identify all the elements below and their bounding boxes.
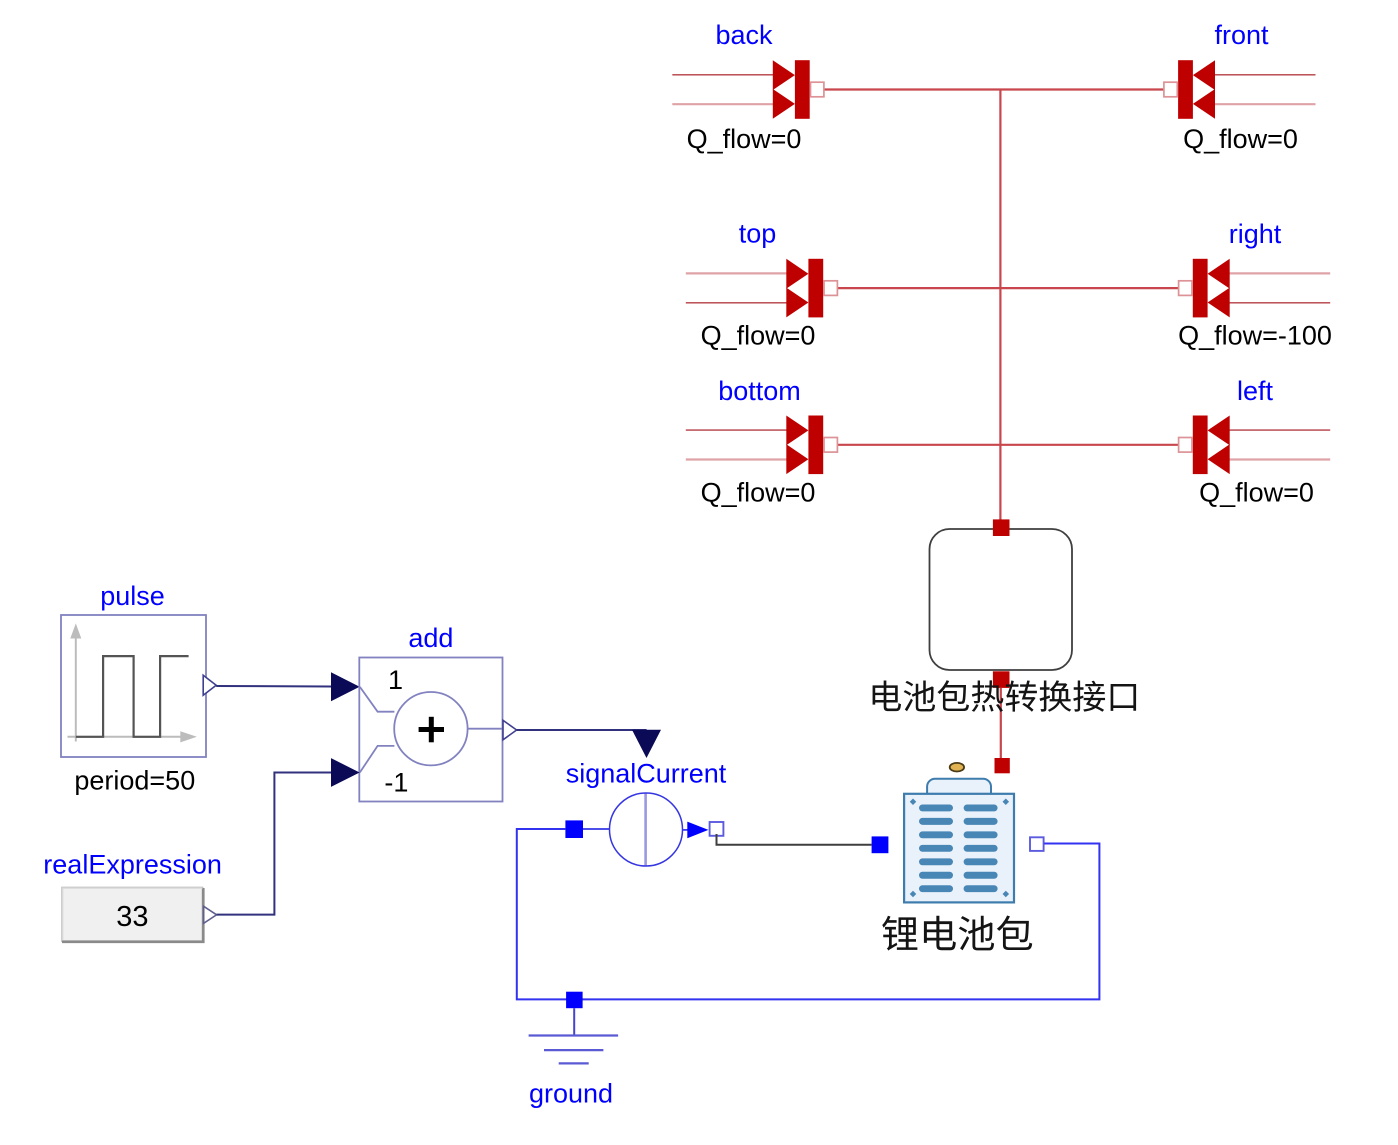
pulse source block bbox=[61, 615, 206, 757]
port pulse output bbox=[203, 675, 216, 695]
battery pack icon 锂电池包 bbox=[904, 779, 1014, 903]
svg-text:front: front bbox=[1214, 20, 1269, 50]
port signalCurrent control input arrow (down) bbox=[632, 730, 661, 758]
port add.u1 input arrow bbox=[331, 672, 360, 701]
wire add.y to signalCurrent control bbox=[517, 729, 647, 731]
svg-text:right: right bbox=[1229, 219, 1282, 249]
pin signalCurrent.p (left square) bbox=[565, 820, 583, 838]
ground symbol bbox=[529, 1008, 619, 1063]
wire vertical trunk to interface bbox=[999, 90, 1001, 521]
svg-text:pulse: pulse bbox=[100, 581, 165, 611]
svg-text:signalCurrent: signalCurrent bbox=[566, 759, 727, 789]
pin ground junction square bbox=[566, 992, 583, 1009]
svg-text:Q_flow=0: Q_flow=0 bbox=[701, 478, 816, 508]
svg-text:33: 33 bbox=[116, 901, 148, 933]
wire bottom-left row bbox=[837, 444, 1179, 446]
heat flow sensor left bbox=[1179, 416, 1331, 475]
heat flow sensor front bbox=[1164, 60, 1316, 119]
svg-text:Q_flow=0: Q_flow=0 bbox=[701, 321, 816, 351]
wire electrical loop (signalCurrent.p - ground - battery.n) bbox=[517, 829, 1100, 999]
svg-text:Q_flow=-100: Q_flow=-100 bbox=[1178, 321, 1332, 351]
svg-text:1: 1 bbox=[388, 665, 403, 695]
source signalCurrent bbox=[583, 793, 708, 866]
svg-text:left: left bbox=[1237, 376, 1274, 406]
wire interface to battery heat port bbox=[1000, 688, 1002, 758]
node battery heat port bbox=[995, 758, 1010, 773]
node heat port top of interface bbox=[993, 519, 1010, 536]
svg-text:period=50: period=50 bbox=[74, 766, 195, 796]
label 锂电池包 bbox=[882, 916, 1032, 951]
wire realExpression.y to add.u2 bbox=[217, 773, 332, 915]
svg-text:ground: ground bbox=[529, 1079, 613, 1109]
pin battery positive (left square) bbox=[872, 836, 889, 853]
heat flow sensor bottom bbox=[686, 416, 838, 475]
pin signalCurrent.n (right square) bbox=[710, 822, 724, 836]
label 电池包热转换接口 bbox=[873, 680, 1137, 712]
svg-text:bottom: bottom bbox=[718, 376, 801, 406]
heat flow sensor right bbox=[1179, 259, 1331, 318]
node heat port bottom of interface bbox=[993, 671, 1010, 688]
port add.y output bbox=[503, 720, 517, 740]
svg-text:-1: -1 bbox=[384, 768, 408, 798]
svg-text:add: add bbox=[408, 623, 453, 653]
realExpression block bbox=[62, 888, 203, 942]
svg-text:Q_flow=0: Q_flow=0 bbox=[1199, 478, 1314, 508]
wire top-right row bbox=[837, 287, 1179, 289]
pin battery negative (right square) bbox=[1030, 837, 1044, 851]
svg-text:Q_flow=0: Q_flow=0 bbox=[1183, 124, 1298, 154]
heat flow sensor back bbox=[672, 60, 824, 119]
svg-text:Q_flow=0: Q_flow=0 bbox=[687, 124, 802, 154]
svg-text:top: top bbox=[739, 219, 777, 249]
port add.u2 input arrow bbox=[331, 758, 360, 787]
heat flow sensor top bbox=[686, 259, 838, 318]
port realExpression.y output bbox=[204, 906, 217, 923]
battery terminal ellipse bbox=[950, 763, 964, 772]
interface box (thermal adapter) bbox=[930, 529, 1073, 670]
wire pulse.y to add.u1 bbox=[216, 685, 331, 688]
svg-text:realExpression: realExpression bbox=[43, 850, 222, 880]
svg-text:back: back bbox=[715, 20, 773, 50]
wire back-front row bbox=[823, 88, 1165, 90]
op add block U add bbox=[359, 658, 502, 802]
wire signalCurrent.n to battery positive pin bbox=[717, 834, 872, 845]
